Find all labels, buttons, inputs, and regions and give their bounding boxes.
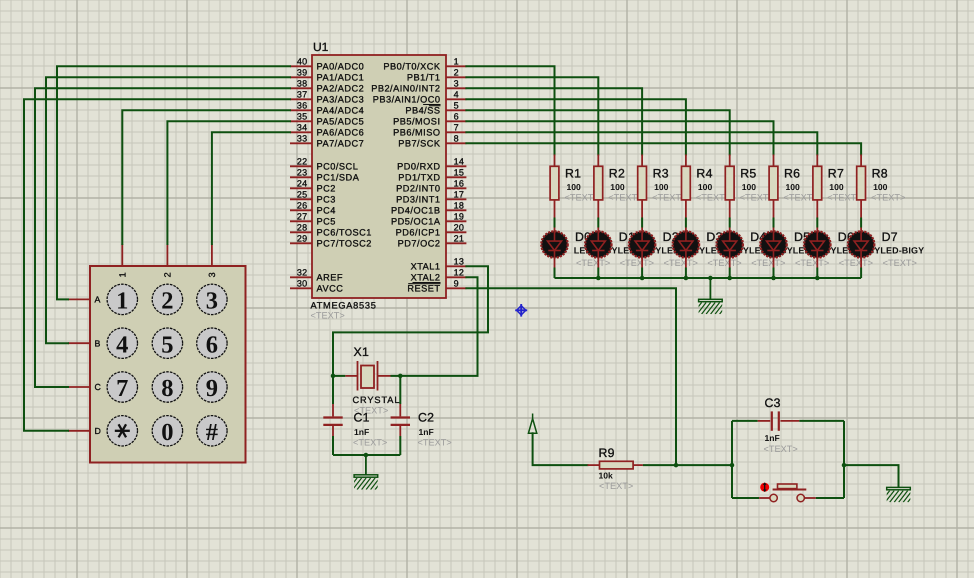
svg-text:PA2/ADC2: PA2/ADC2 <box>317 84 365 94</box>
capacitor C1 <box>323 404 342 436</box>
svg-text:21: 21 <box>454 234 465 244</box>
svg-text:17: 17 <box>454 190 465 200</box>
LED D2 <box>629 228 656 268</box>
svg-text:PC4: PC4 <box>317 206 336 216</box>
svg-text:B: B <box>95 338 101 348</box>
LED D5 <box>760 228 787 268</box>
svg-text:100: 100 <box>873 182 888 192</box>
keypad row pin D <box>68 430 90 432</box>
push button <box>770 484 806 502</box>
capacitor C3 <box>758 411 800 430</box>
wire U1 pin 5 PB4 to resistor R5 <box>466 110 729 154</box>
svg-text:4: 4 <box>454 90 459 100</box>
junction on LED bus <box>727 276 732 281</box>
svg-text:<TEXT>: <TEXT> <box>353 438 387 448</box>
svg-text:22: 22 <box>297 157 308 167</box>
U1 pin 26 PC4 <box>290 201 336 216</box>
wire left branch vertical <box>731 421 733 498</box>
resistor R4 <box>682 155 691 218</box>
U1 pin 20 PD6/ICP1 <box>396 223 467 238</box>
svg-text:12: 12 <box>454 268 465 278</box>
keypad body <box>90 266 246 463</box>
U1 pin 37 PA3/ADC3 <box>290 90 364 105</box>
wire R6 to D5 <box>773 218 775 228</box>
capacitor C2 <box>391 404 410 436</box>
svg-text:PB2/AIN0/INT2: PB2/AIN0/INT2 <box>371 84 440 94</box>
U1 pin 4 PB3/AIN1/OC0 <box>373 90 467 105</box>
wire U1 pin 4 PB3 to resistor R4 <box>466 99 686 154</box>
U1 pin 25 PC3 <box>290 190 336 205</box>
svg-text:PB7/SCK: PB7/SCK <box>398 139 441 149</box>
keypad button * <box>107 416 137 446</box>
wire LED cathode bus <box>555 277 862 279</box>
svg-text:PA3/ADC3: PA3/ADC3 <box>317 95 365 105</box>
wire PA4 to keypad column 1 <box>122 110 290 244</box>
svg-text:A: A <box>95 295 101 305</box>
U1 pin 12 XTAL2 <box>411 268 467 283</box>
svg-text:16: 16 <box>454 179 465 189</box>
svg-text:CRYSTAL: CRYSTAL <box>353 395 401 405</box>
U1 pin 36 PA4/ADC4 <box>290 101 364 116</box>
svg-text:XTAL1: XTAL1 <box>411 262 441 272</box>
wire R4 to D3 <box>685 218 687 228</box>
keypad button 1 <box>107 284 137 314</box>
svg-text:35: 35 <box>297 112 308 122</box>
U1 pin 38 PA2/ADC2 <box>290 79 364 94</box>
svg-text:14: 14 <box>454 157 465 167</box>
resistor R8 <box>857 155 866 218</box>
wire U1 pin 6 PB5 to resistor R6 <box>466 121 773 154</box>
svg-text:6: 6 <box>206 331 218 358</box>
svg-text:40: 40 <box>297 57 308 67</box>
resistor R7 <box>813 155 822 218</box>
LED D6 <box>804 228 831 268</box>
U1 pin 24 PC2 <box>290 179 336 194</box>
svg-text:<TEXT>: <TEXT> <box>311 311 345 321</box>
resistor R5 <box>725 155 734 218</box>
svg-text:27: 27 <box>297 212 308 222</box>
wire R1 to D0 <box>554 218 556 228</box>
wire D3 cathode to bus <box>685 268 687 279</box>
wire D4 cathode to bus <box>729 268 731 279</box>
power symbol VCC arrow <box>528 414 536 434</box>
keypad row pin B <box>68 342 90 344</box>
svg-text:PB0/T0/XCK: PB0/T0/XCK <box>383 62 440 72</box>
LED D7 <box>848 228 875 268</box>
svg-text:15: 15 <box>454 168 465 178</box>
keypad button 4 <box>107 328 137 358</box>
keypad row pin A <box>68 298 90 300</box>
svg-text:<TEXT>: <TEXT> <box>795 258 829 268</box>
wire button left lead <box>732 497 770 499</box>
svg-text:5: 5 <box>161 331 173 358</box>
svg-text:28: 28 <box>297 223 308 233</box>
wire crystal right lead <box>391 375 401 377</box>
wire U1 XTAL1 to crystal X1 left <box>333 266 488 376</box>
wire C3 left lead run <box>732 420 758 422</box>
svg-text:33: 33 <box>297 134 308 144</box>
U1 pin 16 PD2/INT0 <box>396 179 466 194</box>
svg-text:R6: R6 <box>784 167 800 181</box>
svg-text:PA0/ADC0: PA0/ADC0 <box>317 62 365 72</box>
U1 pin 21 PD7/OC2 <box>398 234 467 249</box>
keypad button # <box>197 416 227 446</box>
svg-text:R5: R5 <box>740 167 756 181</box>
svg-text:13: 13 <box>454 257 465 267</box>
wire U1 pin 3 PB2 to resistor R3 <box>466 88 642 154</box>
svg-text:26: 26 <box>297 201 308 211</box>
U1 pin 22 PC0/SCL <box>290 157 358 172</box>
svg-text:34: 34 <box>297 123 308 133</box>
U1 pin 33 PA7/ADC7 <box>290 134 364 149</box>
wire U1 pin 1 PB0 to resistor R1 <box>466 66 554 154</box>
svg-text:3: 3 <box>206 288 218 315</box>
svg-text:PD5/OC1A: PD5/OC1A <box>391 217 441 227</box>
junction crystal left node <box>331 374 336 379</box>
resistor R2 <box>594 155 603 218</box>
svg-text:1: 1 <box>454 57 459 67</box>
wire crystal left node down to C1 <box>332 376 334 404</box>
wire to ground right <box>844 465 899 487</box>
junction LED bus to ground tap <box>708 276 713 281</box>
svg-text:2: 2 <box>454 68 459 78</box>
svg-text:R4: R4 <box>696 167 712 181</box>
svg-text:PD0/RXD: PD0/RXD <box>397 162 440 172</box>
svg-text:PB1/T1: PB1/T1 <box>407 73 441 83</box>
svg-text:PC5: PC5 <box>317 217 336 227</box>
svg-text:PD1/TXD: PD1/TXD <box>398 173 440 183</box>
resistor R6 <box>769 155 778 218</box>
U1 pin 34 PA6/ADC6 <box>290 123 364 138</box>
wire PA1 to keypad row B <box>46 77 290 343</box>
U1 pin 30 AVCC <box>290 279 343 294</box>
keypad button 6 <box>197 328 227 358</box>
svg-text:PD3/INT1: PD3/INT1 <box>396 195 440 205</box>
junction on LED bus <box>640 276 645 281</box>
keypad row pin C <box>68 386 90 388</box>
wire right branch vertical <box>843 421 845 498</box>
U1 pin 2 PB1/T1 <box>407 68 467 83</box>
U1 pin 7 PB6/MISO <box>393 123 466 138</box>
svg-text:PC0/SCL: PC0/SCL <box>317 162 359 172</box>
svg-text:PD4/OC1B: PD4/OC1B <box>391 206 440 216</box>
svg-text:4: 4 <box>116 331 128 358</box>
svg-text:R7: R7 <box>828 167 844 181</box>
svg-text:7: 7 <box>454 123 459 133</box>
svg-text:PC2: PC2 <box>317 184 336 194</box>
svg-text:U1: U1 <box>313 40 329 54</box>
svg-text:39: 39 <box>297 68 308 78</box>
U1 pin 17 PD3/INT1 <box>396 190 466 205</box>
resistor R1 <box>550 155 559 218</box>
U1 pin 28 PC6/TOSC1 <box>290 223 372 238</box>
svg-text:PD7/OC2: PD7/OC2 <box>398 239 441 249</box>
svg-text:PA5/ADC5: PA5/ADC5 <box>317 117 365 127</box>
U1 pin 5 PB4/SS <box>405 101 466 116</box>
origin marker <box>515 304 527 317</box>
svg-text:R9: R9 <box>599 446 615 460</box>
svg-text:100: 100 <box>654 182 669 192</box>
svg-text:9: 9 <box>454 279 459 289</box>
U1 pin 15 PD1/TXD <box>398 168 466 183</box>
svg-text:20: 20 <box>454 223 465 233</box>
wire PA6 to keypad column 3 <box>212 132 290 244</box>
svg-text:29: 29 <box>297 234 308 244</box>
U1 pin 19 PD5/OC1A <box>391 212 466 227</box>
wire VCC to R9 <box>533 433 588 465</box>
wire D6 cathode to bus <box>816 268 818 279</box>
U1 pin 1 PB0/T0/XCK <box>383 57 466 72</box>
svg-text:2: 2 <box>161 288 173 315</box>
svg-text:1nF: 1nF <box>419 427 434 437</box>
svg-text:PC7/TOSC2: PC7/TOSC2 <box>317 239 372 249</box>
wire PA2 to keypad row C <box>35 88 290 387</box>
svg-text:C2: C2 <box>418 411 434 425</box>
svg-text:100: 100 <box>829 182 844 192</box>
U1 pin 29 PC7/TOSC2 <box>290 234 372 249</box>
wire R8 to D7 <box>860 218 862 228</box>
crystal X1 <box>345 361 390 391</box>
svg-text:1nF: 1nF <box>354 427 369 437</box>
LED D1 <box>585 228 612 268</box>
svg-text:C1: C1 <box>354 411 370 425</box>
keypad column pin 3 <box>211 244 213 266</box>
wire U1 pin 7 PB6 to resistor R7 <box>466 132 817 154</box>
wire reset node to button network <box>676 464 732 466</box>
svg-text:<TEXT>: <TEXT> <box>620 258 654 268</box>
svg-text:18: 18 <box>454 201 465 211</box>
wire R9 to reset node <box>643 464 676 466</box>
svg-text:<TEXT>: <TEXT> <box>883 258 917 268</box>
keypad button 7 <box>107 372 137 402</box>
wire U1 RESET to reset network <box>466 288 676 465</box>
U1 pin 35 PA5/ADC5 <box>290 112 364 127</box>
junction reset node <box>674 463 679 468</box>
junction button network left <box>730 463 735 468</box>
svg-text:C: C <box>95 382 102 392</box>
wire PA5 to keypad column 2 <box>167 121 290 244</box>
button actuator marker <box>760 483 769 492</box>
wire D7 cathode to bus <box>860 268 862 279</box>
junction on LED bus <box>815 276 820 281</box>
svg-text:PA4/ADC4: PA4/ADC4 <box>317 106 365 116</box>
svg-text:19: 19 <box>454 212 465 222</box>
svg-text:3: 3 <box>454 79 459 89</box>
keypad button 0 <box>152 416 182 446</box>
wire D2 cathode to bus <box>641 268 643 279</box>
svg-text:30: 30 <box>297 279 308 289</box>
svg-text:ATMEGA8535: ATMEGA8535 <box>311 301 377 311</box>
wire C3 right lead run <box>799 420 844 422</box>
U1 pin 14 PD0/RXD <box>397 157 466 172</box>
svg-text:D: D <box>95 426 101 436</box>
svg-text:32: 32 <box>297 268 308 278</box>
U1 pin 9 RESET <box>407 279 466 294</box>
svg-text:<TEXT>: <TEXT> <box>576 258 610 268</box>
svg-text:6: 6 <box>454 112 459 122</box>
svg-text:<TEXT>: <TEXT> <box>418 438 452 448</box>
svg-text:X1: X1 <box>354 345 370 359</box>
svg-text:AVCC: AVCC <box>317 284 344 294</box>
svg-text:<TEXT>: <TEXT> <box>839 258 873 268</box>
svg-text:100: 100 <box>698 182 713 192</box>
svg-text:8: 8 <box>454 134 459 144</box>
resistor R9 <box>588 461 643 469</box>
svg-text:#: # <box>206 419 218 446</box>
keypad column pin 2 <box>166 244 168 266</box>
keypad button 9 <box>197 372 227 402</box>
wire D0 cathode to bus <box>554 268 556 279</box>
svg-text:R2: R2 <box>609 167 625 181</box>
svg-text:100: 100 <box>610 182 625 192</box>
U1 pin 32 AREF <box>290 268 343 283</box>
svg-text:9: 9 <box>206 375 218 402</box>
svg-text:RESET: RESET <box>407 284 440 294</box>
svg-text:2: 2 <box>163 272 173 277</box>
svg-text:PC3: PC3 <box>317 195 336 205</box>
svg-text:100: 100 <box>742 182 757 192</box>
svg-text:PB3/AIN1/OC0: PB3/AIN1/OC0 <box>373 95 441 105</box>
svg-text:37: 37 <box>297 90 308 100</box>
svg-text:<TEXT>: <TEXT> <box>707 258 741 268</box>
svg-text:C3: C3 <box>765 396 781 410</box>
wire R5 to D4 <box>729 218 731 228</box>
svg-text:<TEXT>: <TEXT> <box>751 258 785 268</box>
svg-text:25: 25 <box>297 190 308 200</box>
keypad button 5 <box>152 328 182 358</box>
U1 pin 3 PB2/AIN0/INT2 <box>371 79 466 94</box>
svg-text:PD2/INT0: PD2/INT0 <box>396 184 440 194</box>
keypad button 8 <box>152 372 182 402</box>
junction crystal ground tap <box>364 453 369 458</box>
svg-text:R1: R1 <box>565 167 581 181</box>
svg-text:R8: R8 <box>872 167 888 181</box>
svg-text:PA1/ADC1: PA1/ADC1 <box>317 73 365 83</box>
wire U1 pin 2 PB1 to resistor R2 <box>466 77 598 154</box>
svg-text:AREF: AREF <box>317 273 344 283</box>
LED D4 <box>716 228 743 268</box>
svg-text:1nF: 1nF <box>765 433 780 443</box>
wire R7 to D6 <box>816 218 818 228</box>
svg-text:<TEXT>: <TEXT> <box>871 193 905 203</box>
svg-text:1: 1 <box>116 288 128 315</box>
svg-text:PC1/SDA: PC1/SDA <box>317 173 360 183</box>
wire C1/C2 bottoms to ground <box>333 436 400 455</box>
wire PA0 to keypad row A <box>57 66 290 299</box>
U1 pin 39 PA1/ADC1 <box>290 68 364 83</box>
junction button network right <box>842 463 847 468</box>
svg-text:D7: D7 <box>882 230 898 244</box>
wire U1 XTAL2 to crystal X1 right <box>400 277 477 376</box>
wire U1 pin 8 PB7 to resistor R8 <box>466 143 861 154</box>
svg-text:<TEXT>: <TEXT> <box>764 444 798 454</box>
junction on LED bus <box>596 276 601 281</box>
U1 pin 8 PB7/SCK <box>398 134 466 149</box>
svg-text:PB5/MOSI: PB5/MOSI <box>393 117 440 127</box>
svg-text:PB6/MISO: PB6/MISO <box>393 128 440 138</box>
svg-text:PB4/SS: PB4/SS <box>405 106 440 116</box>
LED D0 <box>541 228 568 268</box>
svg-text:38: 38 <box>297 79 308 89</box>
svg-text:<TEXT>: <TEXT> <box>664 258 698 268</box>
svg-text:R3: R3 <box>653 167 669 181</box>
keypad column pin 1 <box>121 244 123 266</box>
wire crystal right node down to C2 <box>399 376 401 404</box>
svg-text:10k: 10k <box>599 471 614 481</box>
U1 pin 40 PA0/ADC0 <box>290 57 364 72</box>
wire D1 cathode to bus <box>597 268 599 279</box>
junction on LED bus <box>684 276 689 281</box>
svg-text:PA7/ADC7: PA7/ADC7 <box>317 139 365 149</box>
svg-text:3: 3 <box>207 272 217 277</box>
LED D3 <box>673 228 700 268</box>
svg-text:36: 36 <box>297 101 308 111</box>
svg-text:8: 8 <box>161 375 173 402</box>
svg-text:PD6/ICP1: PD6/ICP1 <box>396 228 441 238</box>
U1 pin 6 PB5/MOSI <box>393 112 466 127</box>
svg-text:7: 7 <box>116 375 128 402</box>
microcontroller U1 body <box>312 55 446 298</box>
U1 pin 27 PC5 <box>290 212 336 227</box>
wire D5 cathode to bus <box>773 268 775 279</box>
svg-text:24: 24 <box>297 179 308 189</box>
svg-text:100: 100 <box>567 182 582 192</box>
wire crystal left lead <box>333 375 345 377</box>
junction crystal right node <box>398 374 403 379</box>
svg-text:LED-BIGY: LED-BIGY <box>880 245 924 255</box>
svg-text:0: 0 <box>161 419 173 446</box>
wire R3 to D2 <box>641 218 643 228</box>
svg-text:<TEXT>: <TEXT> <box>599 481 633 491</box>
keypad button 3 <box>197 284 227 314</box>
svg-text:23: 23 <box>297 168 308 178</box>
U1 pin 13 XTAL1 <box>411 257 467 272</box>
U1 pin 18 PD4/OC1B <box>391 201 466 216</box>
wire button right lead <box>804 497 844 499</box>
svg-text:1: 1 <box>118 272 128 277</box>
resistor R3 <box>638 155 647 218</box>
wire R2 to D1 <box>597 218 599 228</box>
svg-text:XTAL2: XTAL2 <box>411 273 441 283</box>
svg-text:PC6/TOSC1: PC6/TOSC1 <box>317 228 372 238</box>
U1 pin 23 PC1/SDA <box>290 168 360 183</box>
wire PA3 to keypad row D <box>24 99 290 431</box>
junction on LED bus <box>771 276 776 281</box>
svg-text:5: 5 <box>454 101 459 111</box>
keypad button 2 <box>152 284 182 314</box>
svg-text:PA6/ADC6: PA6/ADC6 <box>317 128 365 138</box>
svg-text:100: 100 <box>786 182 801 192</box>
